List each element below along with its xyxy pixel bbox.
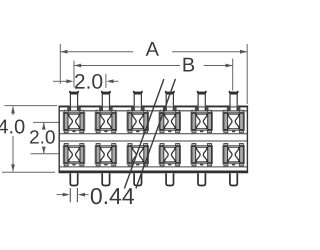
dim B label bbox=[183, 58, 194, 72]
bottom pin 1 bbox=[70, 173, 77, 185]
dim 0.44 right outside arrow bbox=[84, 194, 89, 196]
top pin 5 bbox=[195, 91, 209, 111]
dim 2.0 row label bbox=[30, 130, 55, 143]
dim 2.0 row arrow down bbox=[42, 147, 46, 154]
dim 0.44 extension bar right bbox=[76, 188, 78, 202]
top pin 6 bbox=[227, 91, 241, 111]
dim 2.0 top label bbox=[75, 74, 102, 89]
dim 4.0 label bbox=[0, 119, 24, 133]
dim A arrow right bbox=[240, 50, 247, 54]
dim 0.44 left outside arrow bbox=[57, 194, 65, 196]
body top rail thick line bbox=[59, 106, 249, 108]
contact cell row2 col4 bbox=[159, 144, 180, 166]
dim B arrow right bbox=[226, 64, 233, 68]
contact cell row2 col2 bbox=[95, 144, 116, 166]
dim A line right segment bbox=[172, 51, 247, 53]
dim A label bbox=[146, 42, 159, 56]
top pin 2 bbox=[99, 91, 113, 111]
contact cell row2 col1 bbox=[63, 144, 84, 166]
rail line under top bbox=[59, 110, 247, 112]
dim 4.0 extension line top bbox=[5, 105, 58, 107]
contact cell row1 col6 bbox=[223, 110, 244, 132]
contact cell row2 col6 bbox=[223, 144, 244, 166]
rail line below row2 bbox=[59, 166, 247, 168]
dim A extension line left bbox=[59, 44, 61, 84]
contact cell row1 col2 bbox=[95, 110, 116, 132]
dim B line left segment bbox=[74, 65, 180, 67]
break line 1 bbox=[124, 79, 163, 189]
contact cell row1 col5 bbox=[191, 110, 212, 132]
dim 4.0 arrow up bbox=[11, 106, 15, 113]
dim 4.0 line lower segment bbox=[12, 136, 14, 172]
dim A line left segment bbox=[60, 51, 133, 53]
dim 4.0 extension line bottom bbox=[2, 171, 55, 173]
dim 0.44 label bbox=[91, 188, 134, 204]
dim 2.0 row line upper segment bbox=[43, 122, 45, 129]
dim 2.0 top extension line pin1 bbox=[73, 61, 75, 88]
bottom pin 6 bbox=[230, 173, 237, 185]
dim 4.0 line upper segment bbox=[12, 106, 14, 115]
contact cell row1 col3 bbox=[127, 110, 148, 132]
dim 4.0 arrow down bbox=[11, 164, 15, 171]
break line 2 bbox=[136, 79, 176, 189]
bottom pin 5 bbox=[198, 173, 205, 185]
dim 2.0 top extension line pin2 bbox=[105, 74, 107, 88]
rail line below row1 bbox=[59, 133, 247, 135]
contact cell row1 col4 bbox=[159, 110, 180, 132]
dim B line right segment bbox=[204, 65, 233, 67]
bottom pin 4 bbox=[166, 173, 173, 185]
dim B arrow left bbox=[74, 64, 81, 68]
dim A extension line right bbox=[246, 44, 248, 104]
contact cell row2 col5 bbox=[191, 144, 212, 166]
top pin 3 bbox=[131, 91, 145, 111]
dim 0.44 extension bar left bbox=[69, 188, 71, 202]
dim 2.0 top right outside arrow bbox=[113, 80, 119, 82]
dim 2.0 row arrow up bbox=[42, 122, 46, 129]
dim 2.0 row extension line top bbox=[33, 121, 59, 123]
rail line above row2 bbox=[59, 140, 247, 142]
bottom pin 2 bbox=[102, 173, 109, 185]
bottom pin 3 bbox=[134, 173, 141, 185]
top pin 1 bbox=[67, 91, 81, 111]
dim A arrow left bbox=[60, 50, 67, 54]
connector body outline bbox=[59, 106, 247, 172]
dim 2.0 top left outside arrow bbox=[53, 80, 67, 82]
dim 2.0 row extension line bottom bbox=[31, 153, 59, 155]
top pin 4 bbox=[163, 91, 177, 111]
dim 2.0 row line lower segment bbox=[43, 147, 45, 154]
dim B extension line right bbox=[232, 59, 234, 91]
body bottom rail thick line bbox=[59, 171, 249, 174]
contact cell row2 col3 bbox=[127, 144, 148, 166]
contact cell row1 col1 bbox=[63, 110, 84, 132]
